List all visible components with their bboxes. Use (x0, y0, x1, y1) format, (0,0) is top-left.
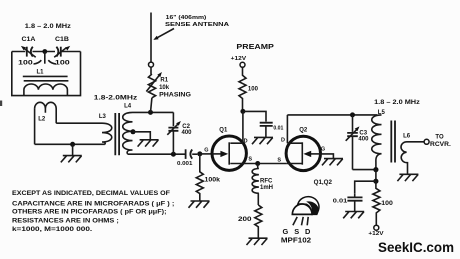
svg-text:10k: 10k (159, 85, 170, 91)
node output terminal (424, 139, 429, 144)
svg-text:100k: 100k (205, 177, 221, 183)
inductor L1 core lines (23, 76, 69, 80)
wire feed junction to bypass (355, 181, 376, 194)
wire Q2 drain rail (287, 114, 377, 116)
svg-text:+12V: +12V (231, 56, 247, 62)
edge artifact (0, 101, 2, 107)
resistor 100 (output feed) (373, 181, 380, 225)
wire bottom of L2/L3 loop (35, 143, 105, 145)
wire leader curls under 100 labels (34, 60, 57, 64)
node antenna terminal (149, 62, 154, 67)
ground (below 100k) (189, 201, 210, 208)
wire top edge segments (12, 51, 81, 53)
wire R1 to L4 junction (151, 98, 152, 113)
wire shield box left/bottom/right (12, 52, 81, 96)
wire junction to feed junction (375, 170, 377, 182)
inductor L3 (102, 123, 112, 144)
wire L4 top rail (133, 111, 174, 113)
ground (Q2 gate) (322, 159, 343, 166)
capacitor C3 (346, 115, 360, 170)
transistor package MPF102 pictorial (292, 197, 319, 226)
svg-text:1.8 – 2.0 MHz: 1.8 – 2.0 MHz (25, 24, 71, 30)
ground (below 0.01 bypass) (265, 126, 267, 137)
svg-text:L1: L1 (37, 70, 45, 76)
wire Q1 source to Q2 source (258, 163, 287, 165)
resistor 200 (255, 205, 262, 238)
transformer T2 core (391, 121, 395, 163)
capacitor 0.01 (output bypass) (347, 197, 362, 200)
node L4 tap (131, 129, 136, 134)
svg-text:OTHERS ARE IN PICOFARADS ( pF: OTHERS ARE IN PICOFARADS ( pF OR μμF); (12, 208, 167, 215)
node R1/L4 junction (148, 110, 153, 115)
node source junction (255, 161, 260, 166)
node junction of C1A/C1B (42, 49, 47, 54)
svg-text:1.8 – 2.0 MHz: 1.8 – 2.0 MHz (374, 100, 420, 106)
svg-text:200: 200 (238, 217, 252, 223)
capacitor C1A (21, 46, 36, 57)
svg-text:SENSE ANTENNA: SENSE ANTENNA (165, 22, 230, 28)
node Q1 gate junction (197, 151, 202, 156)
svg-text:PHASING: PHASING (159, 93, 191, 99)
wire C3 bottom to junction (353, 169, 376, 171)
svg-text:0.01: 0.01 (273, 125, 283, 131)
svg-text:400: 400 (358, 137, 369, 143)
svg-text:C1A: C1A (22, 37, 37, 43)
sense antenna lead (150, 13, 152, 63)
svg-text:PREAMP: PREAMP (236, 42, 274, 51)
inductor RFC 1mH (252, 164, 259, 206)
transformer T1 core (115, 113, 119, 155)
svg-text:D: D (244, 138, 248, 144)
wire C6 cap top lead (354, 194, 356, 198)
svg-text:L3: L3 (99, 114, 107, 120)
svg-text:100: 100 (381, 201, 393, 207)
wire L4 bottom rail (128, 153, 186, 155)
svg-text:D: D (281, 137, 285, 143)
resistor 100 (drain feed) (239, 67, 246, 111)
svg-text:Q1: Q1 (219, 128, 228, 134)
inductor L2 (35, 102, 57, 144)
wire R1 arrow (146, 76, 159, 92)
ground (below L2/L3) (72, 144, 74, 155)
svg-text:1.8-2.0MHz: 1.8-2.0MHz (94, 95, 137, 101)
svg-text:R1: R1 (160, 78, 168, 84)
wire rail to bypass cap (243, 111, 266, 121)
svg-text:100: 100 (248, 86, 259, 92)
node +12V terminal (bottom) (374, 225, 379, 230)
wire L5 bottom to junction (375, 162, 377, 170)
svg-text:L4: L4 (124, 103, 132, 109)
svg-text:C1B: C1B (55, 37, 70, 43)
svg-text:100: 100 (18, 60, 33, 67)
ground (below L6) (397, 174, 418, 181)
svg-text:400: 400 (182, 130, 193, 136)
svg-text:S: S (277, 158, 281, 164)
svg-text:EXCEPT AS INDICATED, DECIMAL V: EXCEPT AS INDICATED, DECIMAL VALUES OF (12, 190, 170, 197)
svg-text:0.01: 0.01 (333, 198, 348, 204)
svg-text:S: S (248, 157, 252, 163)
svg-text:TO: TO (435, 135, 444, 141)
svg-text:Q1,Q2: Q1,Q2 (314, 180, 333, 186)
node C2 bottom junction (171, 152, 176, 157)
svg-text:Q2: Q2 (299, 128, 308, 134)
svg-text:SeekIC.com: SeekIC.com (378, 240, 454, 255)
node tank bottom junction (373, 167, 378, 172)
svg-text:G: G (204, 147, 208, 153)
svg-text:L2: L2 (38, 116, 46, 122)
svg-text:RFC: RFC (260, 179, 273, 185)
svg-text:C3: C3 (359, 130, 367, 136)
node C3 top junction (350, 112, 355, 117)
svg-text:0.001: 0.001 (177, 161, 192, 167)
wire center stub (44, 52, 46, 64)
svg-text:+12V: +12V (368, 231, 384, 237)
svg-text:1mH: 1mH (260, 185, 273, 191)
transistor Q1 (212, 111, 258, 170)
inductor L5 (372, 115, 382, 162)
capacitor 0.01 (Q1 bypass) (260, 123, 273, 126)
wire Q2 gate to ground (321, 154, 334, 159)
ground (below output bypass) (354, 201, 356, 212)
node junction at loop bottom (70, 142, 75, 147)
svg-text:k=1000, M=1000 000.: k=1000, M=1000 000. (12, 226, 93, 233)
svg-text:100: 100 (55, 60, 71, 67)
inductor L4 (123, 112, 133, 154)
node feed junction (373, 179, 378, 184)
svg-text:RESISTANCES ARE IN OHMS ;: RESISTANCES ARE IN OHMS ; (12, 217, 119, 224)
svg-text:MPF102: MPF102 (281, 235, 311, 244)
wire terminal to R1 (150, 67, 152, 74)
svg-text:16" (406mm): 16" (406mm) (166, 15, 207, 21)
wire leader arrow to antenna (158, 29, 175, 38)
resistor 100k (196, 154, 203, 201)
svg-text:CAPACITANCE ARE IN MICROFARADS: CAPACITANCE ARE IN MICROFARADS ( μF ) ; (12, 201, 174, 208)
svg-text:G: G (321, 146, 325, 152)
inductor L1 (24, 84, 68, 96)
svg-text:RCVR.: RCVR. (430, 142, 451, 148)
wire L2 to L3 (56, 122, 102, 124)
resistor R1 (phasing pot) (148, 74, 155, 98)
capacitor C1B (54, 46, 70, 57)
node +12V terminal (240, 62, 245, 67)
inductor L6 (401, 142, 424, 174)
node Q1 drain rail junction (240, 109, 245, 114)
wire gate junction to Q1 (200, 153, 212, 155)
capacitor 0.001 (186, 149, 198, 159)
transistor Q2 (286, 115, 320, 171)
capacitor C2 (167, 112, 181, 154)
ground (L4 tap) (133, 132, 150, 140)
ground (below 200) (247, 238, 268, 245)
svg-text:L6: L6 (403, 133, 411, 139)
